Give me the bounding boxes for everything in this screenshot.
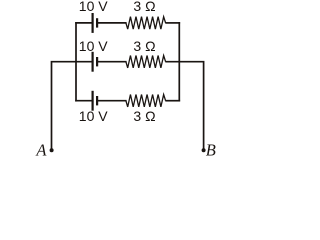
resistor R3 [126, 95, 166, 107]
wire branch1 left lead (bus to battery V1) [75, 22, 92, 24]
wire resistor R1 to right bus [165, 22, 180, 24]
wire battery V1 to resistor R1 [97, 22, 127, 24]
wire branch3 left lead (bus to battery V3) [75, 100, 92, 102]
node A dot [50, 148, 54, 152]
wire right bus joining branches 1-2-3 [178, 22, 180, 102]
wire battery V2 to resistor R2 [97, 61, 127, 63]
battery V1 [93, 13, 98, 33]
resistor R2 [126, 56, 166, 68]
svg-text:10 V: 10 V [79, 38, 108, 54]
wire battery V3 to resistor R3 [97, 100, 127, 102]
svg-text:3 Ω: 3 Ω [133, 0, 155, 14]
svg-text:10 V: 10 V [79, 108, 108, 124]
wire resistor R2 lead and node B riser [165, 62, 203, 149]
battery V2 [93, 52, 98, 72]
battery V3 [93, 91, 98, 111]
resistor R1 [126, 17, 166, 29]
wire node A riser and branch2 left lead [52, 62, 93, 149]
wire left bus joining branches 1-2-3 [75, 22, 77, 102]
svg-text:A: A [35, 140, 47, 159]
svg-text:3 Ω: 3 Ω [133, 38, 155, 54]
node B dot [202, 148, 206, 152]
svg-text:B: B [206, 141, 216, 160]
wire resistor R3 to right bus [165, 100, 180, 102]
svg-text:3 Ω: 3 Ω [133, 108, 155, 124]
svg-text:10 V: 10 V [79, 0, 108, 14]
